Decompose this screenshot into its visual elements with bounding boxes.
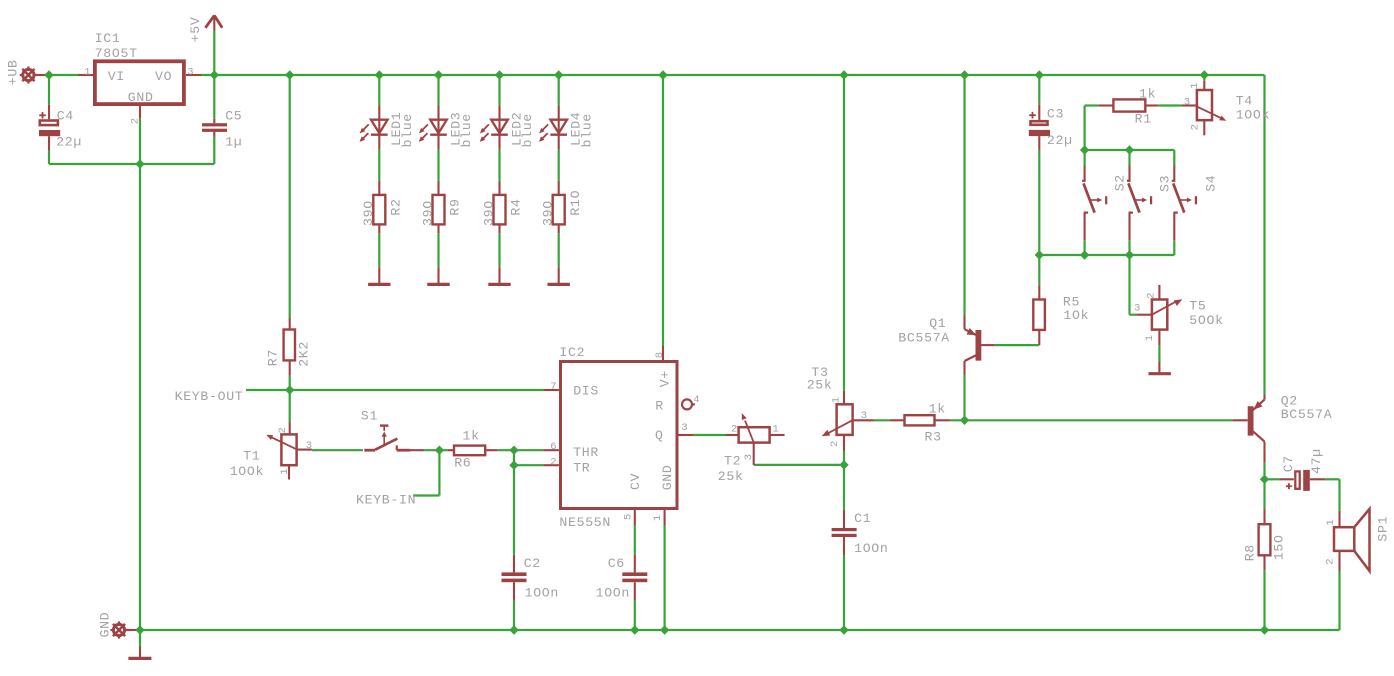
svg-text:3: 3	[743, 454, 755, 460]
svg-text:V+: V+	[657, 371, 672, 388]
svg-text:1OOk: 1OOk	[230, 464, 264, 479]
svg-text:T1: T1	[243, 448, 260, 463]
svg-text:T2: T2	[724, 454, 741, 469]
svg-text:T4: T4	[1236, 94, 1253, 109]
svg-text:22µ: 22µ	[56, 135, 81, 150]
svg-text:1µ: 1µ	[225, 135, 242, 150]
svg-text:47µ: 47µ	[1309, 449, 1324, 474]
svg-text:2: 2	[1190, 124, 1202, 130]
svg-text:1: 1	[773, 424, 779, 436]
svg-text:IC2: IC2	[559, 345, 584, 360]
svg-text:R3: R3	[925, 429, 942, 444]
svg-text:C7: C7	[1281, 456, 1296, 473]
svg-text:1: 1	[652, 515, 664, 521]
svg-text:KEYB-IN: KEYB-IN	[356, 492, 416, 507]
svg-text:blue: blue	[400, 114, 415, 148]
svg-text:22µ: 22µ	[1047, 133, 1072, 148]
svg-text:R8: R8	[1243, 545, 1258, 562]
svg-text:C4: C4	[57, 108, 74, 123]
svg-text:S2: S2	[1112, 175, 1127, 192]
svg-text:GND: GND	[128, 90, 153, 105]
svg-text:39O: 39O	[481, 201, 496, 226]
svg-text:VO: VO	[155, 69, 172, 84]
svg-text:5: 5	[623, 514, 635, 520]
svg-text:DIS: DIS	[573, 384, 598, 399]
svg-text:SP1: SP1	[1376, 516, 1391, 541]
svg-text:R4: R4	[509, 199, 524, 216]
svg-text:39O: 39O	[541, 201, 556, 226]
svg-text:R1O: R1O	[568, 190, 583, 215]
svg-text:BC557A: BC557A	[898, 331, 949, 346]
svg-text:S1: S1	[361, 409, 378, 424]
svg-text:1: 1	[830, 397, 842, 403]
svg-text:3: 3	[306, 440, 312, 452]
svg-text:KEYB-OUT: KEYB-OUT	[175, 389, 243, 404]
svg-text:blue: blue	[459, 114, 474, 148]
svg-text:1OOn: 1OOn	[525, 586, 559, 601]
svg-text:C5: C5	[225, 108, 242, 123]
svg-text:GND: GND	[660, 465, 675, 490]
svg-text:2: 2	[731, 423, 737, 435]
svg-text:3: 3	[861, 410, 867, 422]
svg-text:1: 1	[1325, 519, 1337, 525]
svg-text:1k: 1k	[463, 429, 480, 444]
svg-text:1: 1	[84, 66, 90, 78]
svg-text:39O: 39O	[420, 201, 435, 226]
svg-text:2: 2	[129, 118, 141, 124]
svg-text:6: 6	[550, 441, 556, 453]
svg-text:39O: 39O	[361, 201, 376, 226]
svg-text:78O5T: 78O5T	[95, 46, 137, 61]
svg-text:NE555N: NE555N	[559, 515, 610, 530]
svg-text:Q1: Q1	[929, 316, 946, 331]
svg-text:1OOn: 1OOn	[854, 541, 888, 556]
svg-text:CV: CV	[628, 473, 643, 490]
svg-text:C3: C3	[1047, 106, 1064, 121]
svg-text:1OOn: 1OOn	[596, 586, 630, 601]
svg-text:+5V: +5V	[188, 17, 203, 42]
svg-text:7: 7	[550, 381, 556, 393]
svg-text:2: 2	[277, 427, 289, 433]
svg-text:TR: TR	[573, 460, 590, 475]
svg-text:1: 1	[1189, 83, 1201, 89]
svg-text:1: 1	[1144, 335, 1156, 341]
svg-text:2: 2	[550, 456, 556, 468]
svg-text:S3: S3	[1157, 175, 1172, 192]
svg-text:GND: GND	[97, 612, 112, 637]
svg-text:R7: R7	[266, 350, 281, 367]
svg-text:3: 3	[187, 66, 193, 78]
svg-text:C1: C1	[854, 511, 871, 526]
svg-text:C2: C2	[524, 556, 541, 571]
svg-text:3: 3	[681, 422, 687, 434]
svg-text:S4: S4	[1204, 175, 1219, 192]
svg-text:2K2: 2K2	[296, 342, 311, 367]
svg-text:2: 2	[1325, 558, 1337, 564]
svg-text:4: 4	[693, 394, 699, 406]
svg-text:Q: Q	[655, 428, 663, 443]
svg-text:VI: VI	[108, 69, 125, 84]
svg-text:C6: C6	[608, 556, 625, 571]
svg-text:R1: R1	[1135, 112, 1152, 127]
svg-text:R9: R9	[448, 199, 463, 216]
svg-text:25k: 25k	[807, 378, 832, 393]
svg-text:3: 3	[1134, 302, 1140, 314]
svg-text:R: R	[655, 398, 663, 413]
svg-text:R2: R2	[388, 199, 403, 216]
svg-text:R6: R6	[454, 456, 471, 471]
svg-text:blue: blue	[520, 114, 535, 148]
svg-text:1k: 1k	[929, 401, 946, 416]
svg-text:2: 2	[1146, 293, 1158, 299]
svg-text:blue: blue	[579, 114, 594, 148]
svg-text:25k: 25k	[718, 469, 743, 484]
svg-text:1: 1	[279, 468, 291, 474]
svg-text:5OOk: 5OOk	[1189, 313, 1223, 328]
svg-text:3: 3	[1184, 96, 1190, 108]
svg-text:1k: 1k	[1139, 87, 1156, 102]
svg-text:15O: 15O	[1271, 535, 1286, 560]
svg-text:+UB: +UB	[6, 60, 21, 85]
svg-text:2: 2	[829, 441, 841, 447]
svg-text:1Ok: 1Ok	[1063, 308, 1088, 323]
svg-text:IC1: IC1	[95, 31, 120, 46]
svg-text:BC557A: BC557A	[1281, 407, 1332, 422]
svg-text:T5: T5	[1189, 299, 1206, 314]
svg-text:1OOk: 1OOk	[1236, 108, 1270, 123]
svg-text:THR: THR	[573, 445, 598, 460]
svg-text:8: 8	[654, 352, 666, 358]
